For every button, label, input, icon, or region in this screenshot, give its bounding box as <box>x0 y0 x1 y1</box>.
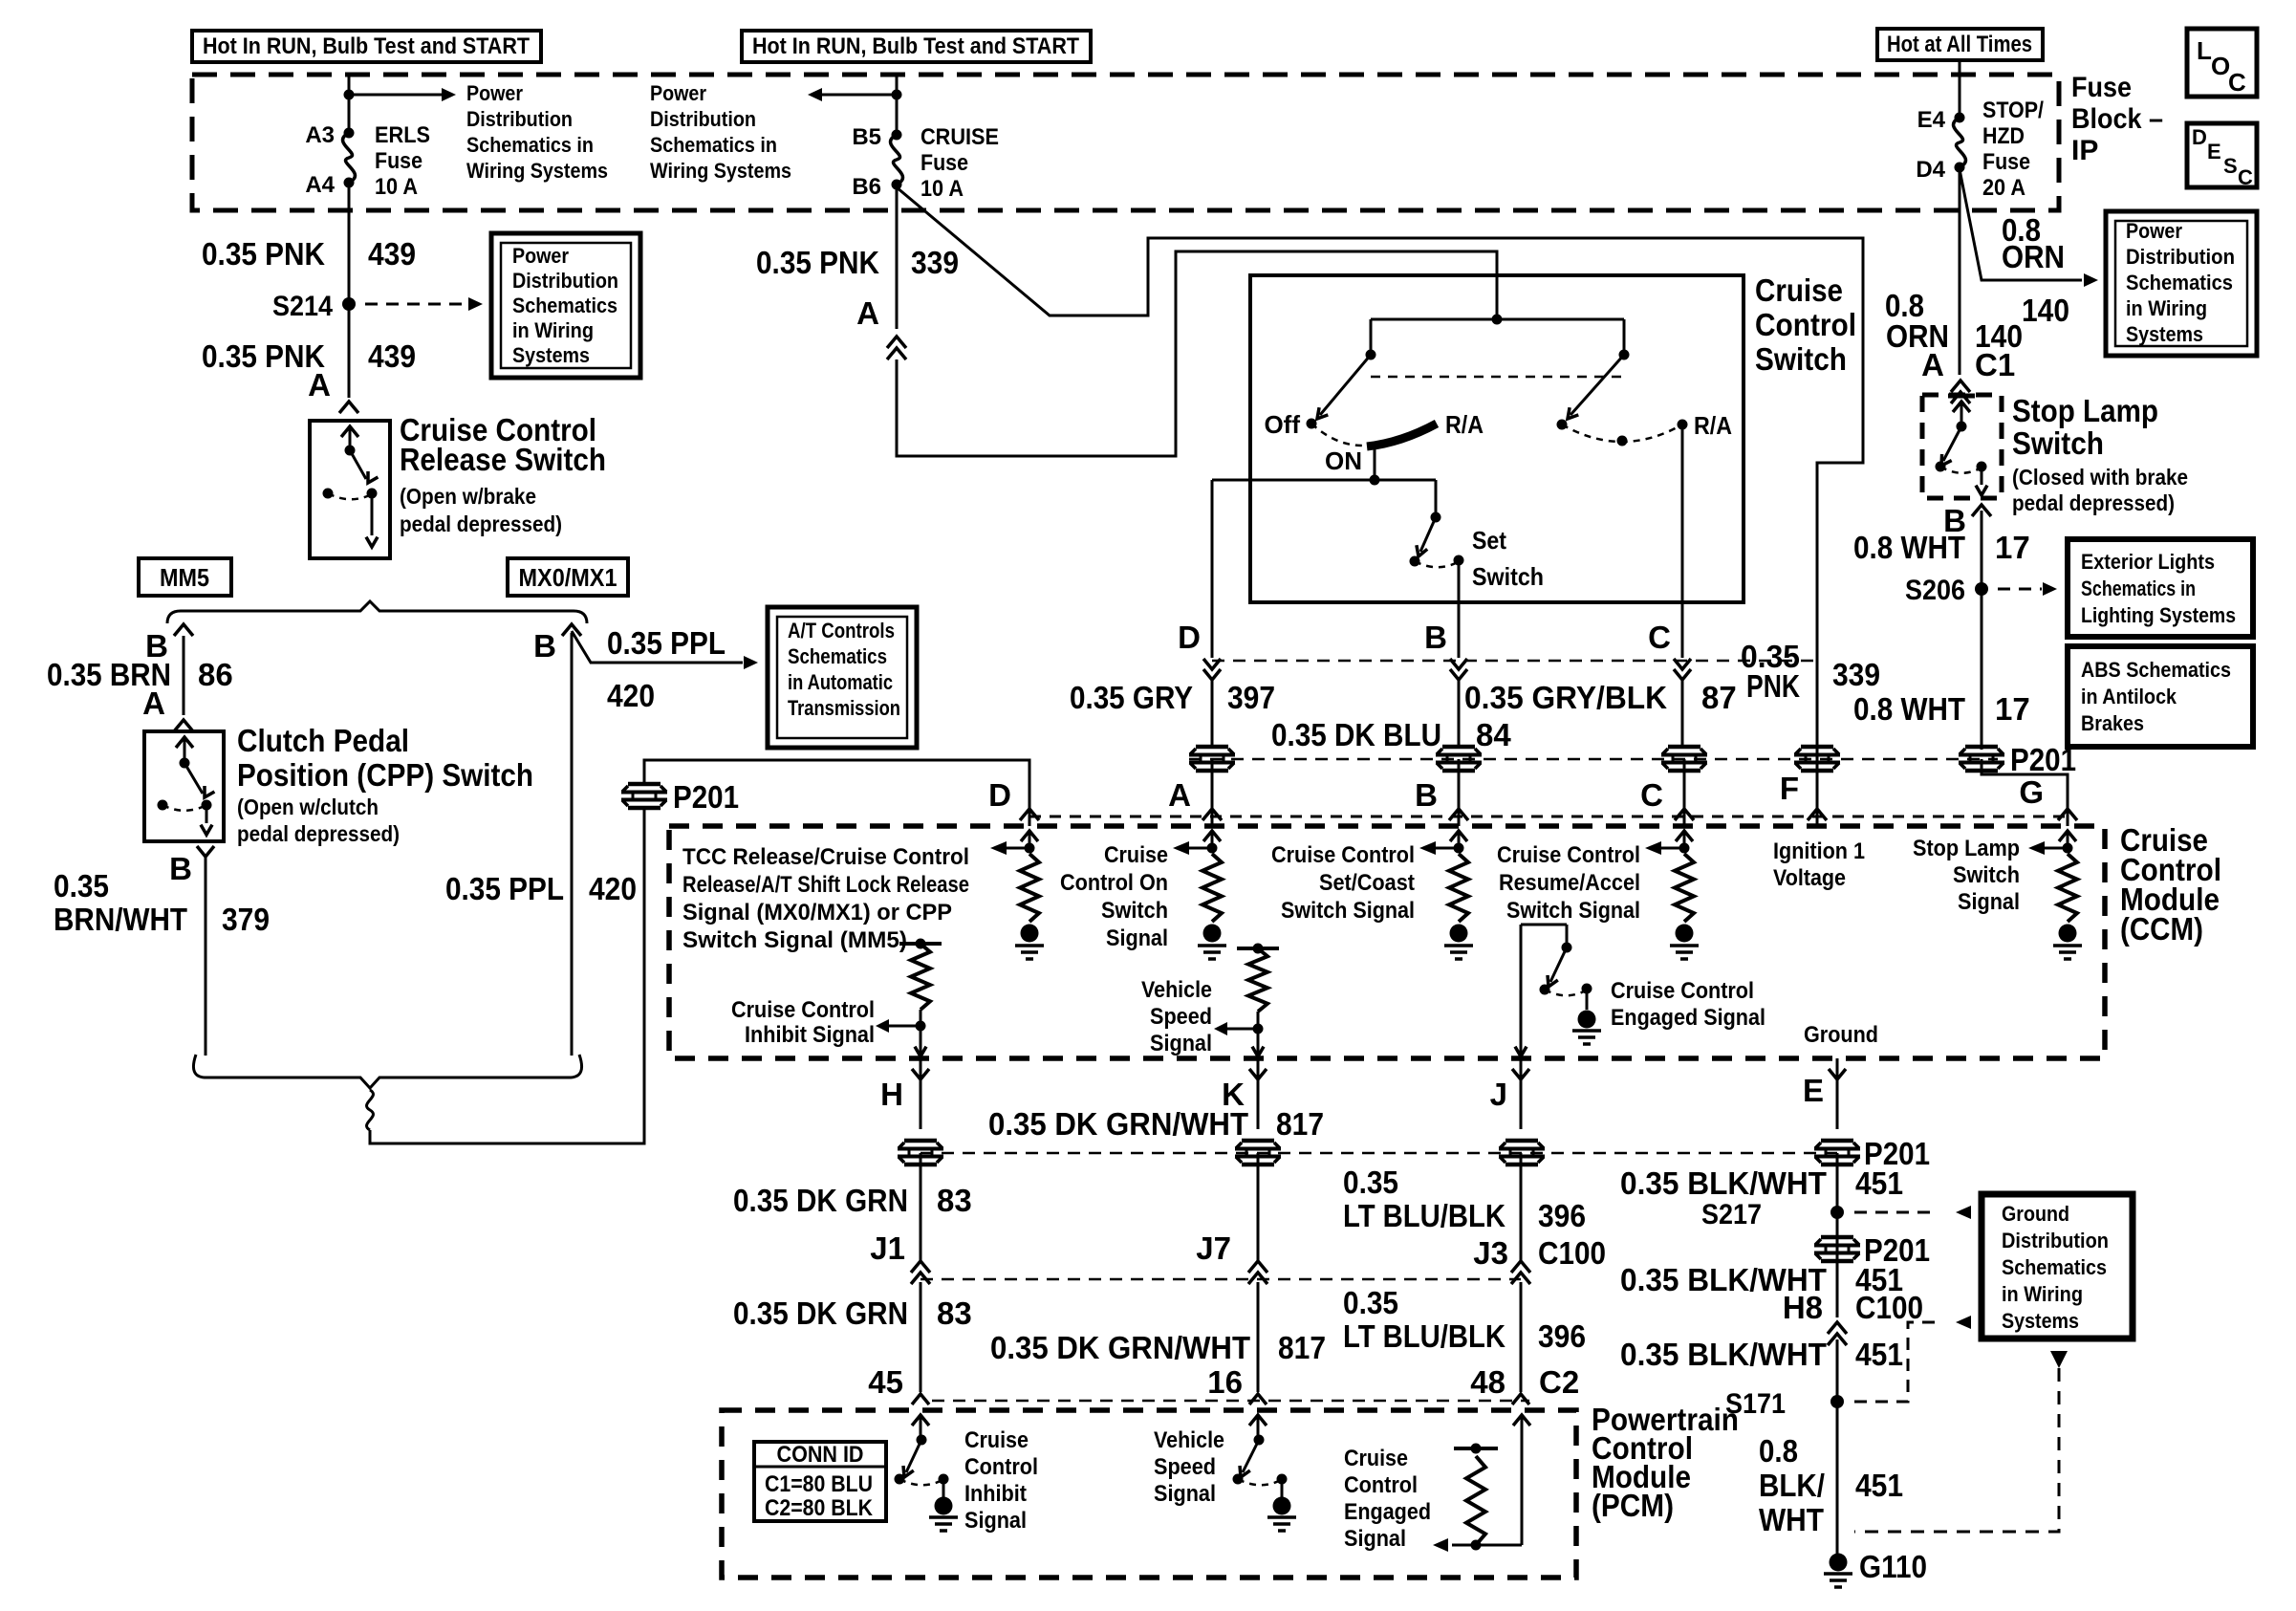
contact dot Off <box>1307 419 1317 429</box>
label: Set Switch <box>1472 526 1544 591</box>
svg-text:Switch: Switch <box>1755 341 1847 377</box>
svg-text:B5: B5 <box>852 124 881 150</box>
svg-text:Distribution: Distribution <box>2002 1229 2109 1252</box>
fuse block IP dashed boundary <box>192 75 2059 210</box>
svg-text:J: J <box>1490 1077 1507 1112</box>
wire K to C100 <box>1257 1153 1260 1262</box>
svg-text:Cruise: Cruise <box>1344 1446 1408 1471</box>
label: Cruise Control Module (CCM) <box>2120 822 2221 947</box>
svg-text:0.35 DK BLU: 0.35 DK BLU <box>1271 717 1441 752</box>
junction dot on ERLS feed <box>344 90 355 100</box>
svg-text:339: 339 <box>1832 657 1880 692</box>
svg-text:Vehicle: Vehicle <box>1154 1427 1224 1453</box>
pin label B (switch) <box>1424 620 1447 655</box>
grouping brace (bottom) <box>193 1055 581 1088</box>
pin label A (CCM) <box>1168 777 1191 813</box>
wire J to P201 <box>1520 1058 1523 1129</box>
pin label C (switch) <box>1648 620 1671 655</box>
pin label 45 <box>868 1364 903 1400</box>
svg-text:Fuse: Fuse <box>921 150 968 176</box>
wire label 0.35 BRN 86 <box>47 657 233 692</box>
svg-text:0.35 PPL: 0.35 PPL <box>607 625 726 661</box>
connector chevron G at CCM <box>2058 809 2077 820</box>
svg-text:H8: H8 <box>1783 1290 1823 1325</box>
svg-text:Transmission: Transmission <box>788 696 900 720</box>
svg-text:J7: J7 <box>1196 1230 1231 1266</box>
set switch arm <box>1417 517 1436 556</box>
thick arc ON contact <box>1367 424 1437 446</box>
dashed connector line P201 row <box>1189 758 1998 761</box>
svg-text:B: B <box>1424 620 1447 655</box>
svg-text:F: F <box>1780 771 1799 806</box>
wire label 0.8 ORN (branch) <box>2002 212 2065 274</box>
svg-text:L: L <box>2197 36 2212 65</box>
wire label 0.8 ORN A (left of wire) <box>1885 288 1949 382</box>
fuse CRUISE 10A (B5-B6) <box>891 130 903 190</box>
connector chevron B (MM5 wire) <box>174 624 193 636</box>
wire E between P201s <box>1836 1153 1839 1250</box>
svg-text:Stop Lamp: Stop Lamp <box>2012 393 2158 428</box>
svg-text:LT BLU/BLK: LT BLU/BLK <box>1343 1198 1505 1233</box>
svg-text:(CCM): (CCM) <box>2120 911 2203 947</box>
note: Ground <box>1804 1022 1878 1048</box>
svg-text:Switch: Switch <box>2012 425 2104 461</box>
svg-text:17: 17 <box>1995 691 2030 727</box>
svg-text:Signal (MX0/MX1) or CPP: Signal (MX0/MX1) or CPP <box>682 900 952 925</box>
wire: PNK 339 riser into cruise switch <box>897 251 1497 456</box>
connector P201 J <box>1499 1141 1545 1165</box>
svg-text:A/T Controls: A/T Controls <box>788 619 895 642</box>
svg-text:A: A <box>856 295 879 331</box>
reference box: Exterior Lights Schematics in Lighting Systems <box>2068 539 2253 637</box>
wire: hot at all times to STOP/HZD fuse <box>1959 61 1961 116</box>
CCM inhibit resistor (pin H) <box>876 939 942 1057</box>
connector chevron D at CCM <box>1020 809 1039 820</box>
svg-text:Release/A/T Shift Lock Release: Release/A/T Shift Lock Release <box>682 872 969 898</box>
svg-text:CRUISE: CRUISE <box>921 124 999 150</box>
wire K to P201 <box>1257 1058 1260 1129</box>
connector P201 A <box>1189 747 1235 771</box>
connector chevron A at CPP <box>174 720 193 731</box>
note: Cruise Control Inhibit Signal <box>731 997 875 1048</box>
svg-text:451: 451 <box>1855 1468 1903 1503</box>
svg-text:Signal: Signal <box>1344 1526 1406 1552</box>
svg-text:0.35 DK GRN: 0.35 DK GRN <box>733 1183 908 1218</box>
label: Cruise Control Switch <box>1755 272 1856 377</box>
svg-text:Signal: Signal <box>1154 1481 1216 1507</box>
svg-text:B6: B6 <box>852 174 881 200</box>
label P201 (second) <box>1864 1232 1930 1268</box>
connector chevrons J7 <box>1248 1261 1267 1284</box>
svg-text:E4: E4 <box>1917 107 1946 133</box>
svg-text:Signal: Signal <box>1150 1031 1212 1056</box>
svg-text:in Wiring: in Wiring <box>2126 296 2207 320</box>
wire label 0.35 BLK/WHT 451 (1) <box>1620 1165 1903 1201</box>
connector double chevron on PNK 339 <box>887 337 906 359</box>
svg-text:Engaged Signal: Engaged Signal <box>1611 1005 1765 1031</box>
note: Cruise Control Set/Coast Switch Signal <box>1271 842 1415 924</box>
svg-text:(Open w/brake: (Open w/brake <box>400 484 536 509</box>
pin label G (CCM) <box>2019 774 2044 810</box>
connector chevron C at CCM <box>1675 809 1694 820</box>
powertrain control module dashed box <box>722 1410 1576 1578</box>
junction dot on CRUISE feed <box>892 90 902 100</box>
svg-text:Position (CPP) Switch: Position (CPP) Switch <box>237 757 533 793</box>
pin label J <box>1490 1077 1507 1112</box>
svg-text:Schematics in: Schematics in <box>650 133 777 157</box>
connector chevron 45 <box>912 1394 929 1404</box>
wire label 0.35 DK GRN/WHT 817 (lower) <box>990 1330 1326 1365</box>
svg-text:WHT: WHT <box>1759 1502 1824 1537</box>
label P201 (top row) <box>2010 742 2076 777</box>
connector chevrons B <box>1450 659 1467 680</box>
svg-text:0.35 PNK: 0.35 PNK <box>202 236 325 272</box>
branch arrow 0.35 PPL 420 to A/T controls <box>572 631 758 669</box>
pin label H <box>880 1077 903 1112</box>
wire: D output <box>1211 480 1214 658</box>
pin label J1 <box>870 1230 905 1266</box>
wire label 0.35 LT BLU/BLK 396 (upper) <box>1343 1165 1586 1233</box>
wire: MM5 B to CPP A <box>183 636 185 715</box>
svg-text:ERLS: ERLS <box>375 122 430 148</box>
svg-text:0.35: 0.35 <box>54 868 109 903</box>
connector chevron E below CCM <box>1829 1069 1846 1079</box>
svg-text:J1: J1 <box>870 1230 905 1266</box>
wire label 0.35 BLK/WHT 451 (3) <box>1620 1337 1903 1372</box>
svg-text:84: 84 <box>1476 717 1511 752</box>
on/off switch pivot (left) <box>1366 350 1376 360</box>
svg-text:0.35 DK GRN: 0.35 DK GRN <box>733 1295 908 1331</box>
connector chevron B (MX0 wire) <box>562 624 581 636</box>
svg-text:Cruise Control: Cruise Control <box>1611 978 1754 1004</box>
svg-text:Cruise: Cruise <box>1104 842 1168 868</box>
wire 16 to PCM <box>1257 1282 1260 1392</box>
svg-text:S214: S214 <box>272 291 333 322</box>
svg-text:in Antilock: in Antilock <box>2081 685 2177 708</box>
svg-text:0.8 WHT: 0.8 WHT <box>1853 691 1965 727</box>
svg-text:in Automatic: in Automatic <box>788 670 893 694</box>
pin label A3 <box>305 122 335 148</box>
stop lamp switch internals <box>1936 396 1988 495</box>
wire: C output (resume) <box>1681 425 1684 658</box>
svg-text:H: H <box>880 1077 903 1112</box>
svg-text:C2: C2 <box>1539 1364 1579 1400</box>
wire B to P201 <box>1458 680 1461 747</box>
svg-text:Distribution: Distribution <box>2126 245 2235 269</box>
pin label J3 <box>1473 1235 1508 1271</box>
wire D to P201 <box>1211 680 1214 747</box>
connector chevron F at CCM <box>1808 809 1827 820</box>
grouping brace (top) <box>167 601 587 623</box>
wire: ORN 140 branch to power distribution <box>1960 169 2098 287</box>
svg-text:B: B <box>169 851 192 886</box>
wire: ON contact stem <box>1374 446 1376 480</box>
stop lamp switch dashed box <box>1922 395 2002 498</box>
svg-text:0.35 GRY: 0.35 GRY <box>1070 680 1193 715</box>
label P201 (E row) <box>1864 1136 1930 1171</box>
wire label 0.35 DK BLU 84 <box>1271 717 1511 752</box>
cruise control switch box <box>1250 275 1744 602</box>
pin label H8 <box>1783 1290 1823 1325</box>
svg-text:STOP/: STOP/ <box>1982 98 2044 123</box>
svg-text:LT BLU/BLK: LT BLU/BLK <box>1343 1318 1505 1354</box>
svg-text:0.35 PPL: 0.35 PPL <box>445 871 564 906</box>
pin label D4 <box>1916 157 1945 183</box>
svg-text:Systems: Systems <box>2002 1309 2079 1333</box>
svg-text:(Open w/clutch: (Open w/clutch <box>237 795 379 819</box>
svg-text:Switch: Switch <box>1101 898 1168 924</box>
svg-text:420: 420 <box>589 871 637 906</box>
svg-text:Schematics in: Schematics in <box>466 133 594 157</box>
header box: Hot at All Times <box>1877 29 2043 60</box>
svg-text:Ground: Ground <box>1804 1022 1878 1048</box>
svg-text:Distribution: Distribution <box>512 269 618 293</box>
svg-text:Vehicle: Vehicle <box>1141 977 1212 1003</box>
svg-text:451: 451 <box>1855 1337 1903 1372</box>
svg-text:(Closed with brake: (Closed with brake <box>2012 465 2188 490</box>
label: ERLS Fuse 10 A <box>375 122 430 200</box>
wire: brace to P201 D <box>370 809 644 1143</box>
svg-text:451: 451 <box>1855 1165 1903 1201</box>
pin label J7 <box>1196 1230 1231 1266</box>
svg-text:Fuse: Fuse <box>1982 149 2030 175</box>
dashed path S171 to ground distribution <box>1854 1316 1971 1402</box>
svg-text:Brakes: Brakes <box>2081 711 2144 735</box>
wire F into CCM <box>1816 759 1819 826</box>
svg-text:83: 83 <box>937 1183 972 1218</box>
wire E to P201 <box>1836 1058 1839 1129</box>
svg-text:Cruise Control: Cruise Control <box>1271 842 1415 868</box>
wire label 0.35 PPL 420 <box>445 871 637 906</box>
dashed arc Off to ON <box>1311 424 1365 446</box>
label C2 <box>1539 1364 1579 1400</box>
svg-text:Switch: Switch <box>1472 562 1544 591</box>
svg-text:396: 396 <box>1538 1198 1586 1233</box>
connector chevron B below CPP <box>197 846 214 857</box>
connector chevrons J1 <box>911 1261 930 1284</box>
pin label A (cruise switch feed) <box>856 295 879 331</box>
dashed connector line at switch outputs <box>1212 660 1817 663</box>
note: Power Distribution Schematics in Wiring Systems (left fuse) <box>466 81 608 183</box>
svg-text:CONN ID: CONN ID <box>777 1442 864 1468</box>
svg-text:Wiring Systems: Wiring Systems <box>466 159 608 183</box>
pin label B6 <box>852 174 881 200</box>
connector chevron at release switch A <box>339 402 358 413</box>
svg-text:pedal depressed): pedal depressed) <box>400 512 562 536</box>
wire label 0.35 BLK/WHT 451 (2) <box>1620 1262 1903 1297</box>
svg-text:339: 339 <box>911 245 959 280</box>
svg-text:C2=80 BLK: C2=80 BLK <box>765 1495 874 1521</box>
note: Ignition 1 Voltage <box>1773 838 1865 891</box>
svg-text:Schematics: Schematics <box>512 294 617 317</box>
wire: feed from hot bus to CRUISE fuse <box>896 75 899 133</box>
svg-text:439: 439 <box>368 338 416 374</box>
svg-text:Schematics: Schematics <box>2002 1255 2107 1279</box>
svg-text:83: 83 <box>937 1295 972 1331</box>
wire: switch output bus <box>1212 479 1436 482</box>
svg-text:Hot In RUN, Bulb Test and STAR: Hot In RUN, Bulb Test and START <box>752 33 1079 59</box>
svg-text:MM5: MM5 <box>160 563 209 592</box>
svg-text:C: C <box>1648 620 1671 655</box>
svg-text:Wiring Systems: Wiring Systems <box>650 159 791 183</box>
CONN ID legend box <box>754 1442 886 1521</box>
fuse ERLS 10A (A3-A4) <box>343 128 356 188</box>
connector chevrons H8 C100 <box>1828 1322 1847 1345</box>
svg-text:D4: D4 <box>1916 157 1945 183</box>
svg-text:817: 817 <box>1276 1106 1324 1142</box>
wire: CPP B down to brace <box>205 857 207 1056</box>
dashed connector line PCM pins <box>932 1400 1529 1403</box>
connector P201 K <box>1235 1141 1281 1165</box>
svg-text:Stop Lamp: Stop Lamp <box>1913 836 2020 861</box>
svg-text:Switch Signal (MM5): Switch Signal (MM5) <box>682 927 907 953</box>
svg-text:ABS Schematics: ABS Schematics <box>2081 658 2231 682</box>
svg-text:Cruise Control: Cruise Control <box>1497 842 1640 868</box>
svg-text:Switch Signal: Switch Signal <box>1506 898 1640 924</box>
svg-text:C: C <box>2228 68 2246 97</box>
wire: STOP/HZD fuse to stop lamp switch <box>1959 167 1961 375</box>
svg-text:B: B <box>533 628 556 664</box>
svg-text:0.35: 0.35 <box>1343 1165 1398 1200</box>
svg-text:Distribution: Distribution <box>650 107 756 131</box>
label C100 (J3) <box>1538 1235 1606 1271</box>
set switch contact dots and arc <box>1410 555 1464 568</box>
svg-text:Control On: Control On <box>1060 870 1168 896</box>
svg-text:0.35 PNK: 0.35 PNK <box>756 245 879 280</box>
svg-text:Switch: Switch <box>1953 862 2020 888</box>
wire label 0.35 LT BLU/BLK 396 (lower) <box>1343 1285 1586 1354</box>
wire label 0.35 DK GRN/WHT 817 (upper) <box>988 1106 1324 1142</box>
note: Cruise Control Inhibit Signal (PCM) <box>964 1427 1038 1534</box>
label: Clutch Pedal Position (CPP) Switch <box>237 723 533 846</box>
connector P201 H <box>898 1141 943 1165</box>
dashed reference arrow from S206 <box>1998 582 2057 596</box>
svg-text:140: 140 <box>2022 293 2069 328</box>
pin label A (release switch) <box>308 367 331 403</box>
dashed link between pivots <box>1371 376 1624 379</box>
wire G jog into CCM <box>1982 759 2068 826</box>
svg-text:A: A <box>1921 347 1944 382</box>
connector chevrons J3 <box>1511 1261 1530 1284</box>
wire label 0.35 DK GRN 83 (upper) <box>733 1183 972 1218</box>
dashed connector line C100 <box>921 1278 1521 1281</box>
svg-text:Fuse: Fuse <box>2071 72 2132 103</box>
svg-text:10 A: 10 A <box>921 176 964 202</box>
svg-text:Systems: Systems <box>2126 322 2203 346</box>
splice S217 <box>1701 1199 1844 1230</box>
dashed reference arrow from S214 <box>365 297 483 311</box>
svg-text:Cruise: Cruise <box>964 1427 1029 1453</box>
label Off <box>1264 410 1300 439</box>
note: Vehicle Speed Signal <box>1141 977 1212 1056</box>
svg-text:S217: S217 <box>1701 1199 1762 1230</box>
arrow to power distribution (left) <box>808 88 897 101</box>
switch supply bar with riser <box>1371 315 1624 355</box>
wire label 140 (branch) <box>2022 293 2069 328</box>
svg-text:Inhibit Signal: Inhibit Signal <box>745 1022 875 1048</box>
wire E to S171 <box>1836 1339 1839 1554</box>
svg-text:Control: Control <box>1344 1472 1418 1498</box>
wire label 140 C1 (right of wire) <box>1975 318 2023 382</box>
svg-text:MX0/MX1: MX0/MX1 <box>519 563 617 592</box>
note: Cruise Control On Switch Signal <box>1060 842 1168 951</box>
release switch internals <box>323 426 379 547</box>
connector P201 B <box>1436 747 1482 771</box>
svg-text:0.8 WHT: 0.8 WHT <box>1853 530 1965 565</box>
svg-text:BLK/: BLK/ <box>1759 1468 1825 1503</box>
svg-text:Release Switch: Release Switch <box>400 442 606 477</box>
svg-text:C100: C100 <box>1855 1290 1923 1325</box>
pin label E <box>1803 1073 1824 1108</box>
svg-text:S206: S206 <box>1905 575 1965 606</box>
header box: Hot In RUN, Bulb Test and START (left) <box>192 31 541 62</box>
pin label F (CCM) <box>1780 771 1799 806</box>
CCM pin C resistor to ground <box>1645 831 1699 959</box>
svg-text:A3: A3 <box>305 122 335 148</box>
connector double chevron at stop lamp A/C1 <box>1951 381 1970 403</box>
svg-text:20 A: 20 A <box>1982 175 2025 201</box>
svg-text:in Wiring: in Wiring <box>512 318 594 342</box>
svg-text:Resume/Accel: Resume/Accel <box>1499 870 1640 896</box>
wire break squiggle <box>367 1090 374 1130</box>
wire 48 to PCM <box>1520 1282 1523 1392</box>
connector chevron B at CCM <box>1449 809 1468 820</box>
wire label 0.35 PNK 339 (F) <box>1741 639 1880 704</box>
clutch pedal position switch box <box>144 731 224 841</box>
svg-text:Control: Control <box>964 1454 1038 1480</box>
svg-text:A: A <box>1168 777 1191 813</box>
label: CRUISE Fuse 10 A <box>921 124 999 202</box>
svg-text:86: 86 <box>198 657 233 692</box>
pin label 16 <box>1207 1364 1243 1400</box>
pin label B (MX0) <box>533 628 556 664</box>
svg-text:0.35 DK GRN/WHT: 0.35 DK GRN/WHT <box>990 1330 1250 1365</box>
svg-text:Power: Power <box>466 81 523 105</box>
svg-text:Cruise Control: Cruise Control <box>731 997 875 1023</box>
right resume/accel switch pivot <box>1619 350 1630 360</box>
CCM engaged switch (pin J) <box>1515 925 1601 1056</box>
svg-text:Schematics in: Schematics in <box>2081 577 2196 600</box>
wire label 0.8 BLK/ WHT 451 <box>1759 1433 1903 1537</box>
label R/A (left) <box>1445 410 1484 439</box>
svg-text:Systems: Systems <box>512 343 590 367</box>
svg-text:Ground: Ground <box>2002 1202 2069 1226</box>
pin label K <box>1222 1077 1245 1112</box>
svg-text:D: D <box>1178 620 1201 655</box>
wire label 0.35 GRY 397 <box>1070 680 1275 715</box>
label R/A (right) <box>1694 411 1732 440</box>
svg-text:0.8: 0.8 <box>1759 1433 1798 1469</box>
connector chevron A at CCM <box>1202 809 1222 820</box>
svg-text:10 A: 10 A <box>375 174 418 200</box>
connector chevron 48 <box>1512 1394 1529 1404</box>
label P201 (D) <box>673 779 739 815</box>
svg-text:Power: Power <box>512 244 569 268</box>
reference box: Power Distribution Schematics in Wiring Systems <box>491 233 640 378</box>
PCM inhibit switch (pin 45) <box>895 1415 959 1531</box>
pin label B5 <box>852 124 881 150</box>
svg-text:A: A <box>308 367 331 403</box>
connector chevron H below CCM <box>912 1069 929 1079</box>
svg-text:0.35 DK GRN/WHT: 0.35 DK GRN/WHT <box>988 1106 1248 1142</box>
svg-text:Engaged: Engaged <box>1344 1499 1431 1525</box>
pin label A4 <box>305 172 335 198</box>
svg-text:Speed: Speed <box>1150 1004 1212 1030</box>
svg-text:B: B <box>1415 777 1438 813</box>
wire label 0.35 PNK 439 (upper) <box>202 236 416 272</box>
splice S171 <box>1725 1388 1844 1420</box>
svg-text:87: 87 <box>1701 680 1737 715</box>
